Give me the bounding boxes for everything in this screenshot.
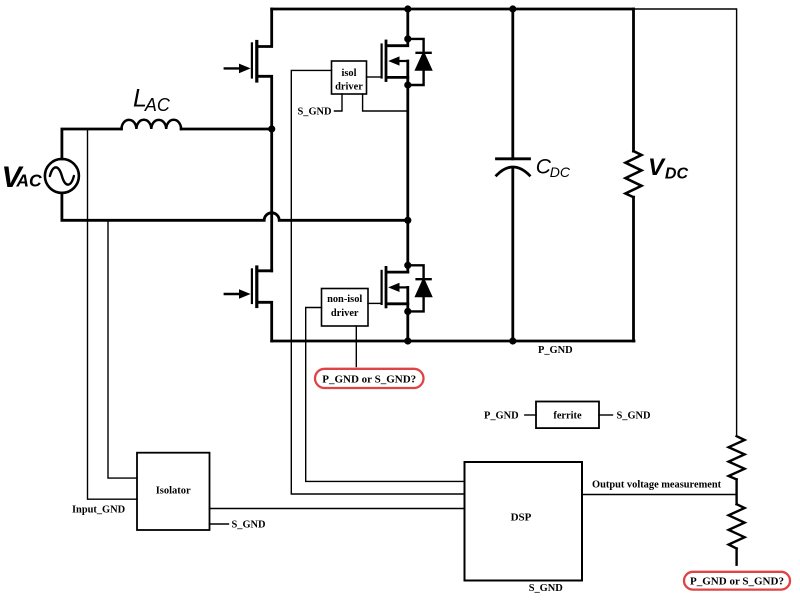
callout oval P_GND or S_GND? (divider)	[684, 572, 790, 590]
svg-text:P_GND or S_GND?: P_GND or S_GND?	[322, 373, 416, 385]
wire DSP output voltage measurement	[582, 494, 737, 496]
svg-text:P_GND: P_GND	[484, 410, 519, 421]
wire top DC rail	[272, 8, 634, 11]
node bottom rail right-leg junction dot	[404, 337, 411, 344]
node A junction dot	[268, 125, 275, 132]
node drain Q4 junction dot	[404, 262, 411, 269]
label P_GND or S_GND? (driver)	[322, 373, 416, 385]
node top rail CDC junction dot	[509, 5, 516, 12]
wire left leg midpoint (node A down to Q3 drain)	[270, 129, 273, 271]
svg-text:driver: driver	[335, 82, 363, 93]
label VAC	[2, 161, 43, 194]
gate arrow of Q3	[225, 289, 251, 299]
svg-text:ferrite: ferrite	[553, 410, 582, 421]
svg-text:DC: DC	[665, 166, 689, 183]
wire VAC top lead	[62, 129, 122, 159]
wire isolator output to DSP	[210, 508, 465, 510]
svg-text:P_GND: P_GND	[538, 345, 573, 356]
wire right leg node B to Q4 drain	[406, 220, 409, 272]
svg-text:Input_GND: Input_GND	[72, 504, 125, 515]
wire isol driver source-reference pin to Q2 source	[363, 94, 408, 111]
svg-text:S_GND: S_GND	[617, 410, 651, 421]
label DSP	[511, 512, 532, 524]
transistor Q2 (top-right MOSFET)	[382, 9, 408, 85]
wire divider midpoint	[735, 479, 737, 504]
wire bottom P_GND rail	[272, 340, 634, 343]
node B junction dot (AC return to right leg)	[404, 217, 411, 224]
label Input_GND	[72, 504, 125, 515]
wire divider bottom stub	[735, 549, 737, 565]
wire non-isol driver gate output to Q4	[368, 302, 381, 304]
wire Q4 source to bottom rail	[406, 311, 409, 341]
non-isol driver box U2	[322, 289, 369, 327]
svg-text:DC: DC	[550, 164, 571, 180]
source arrow of Q4	[388, 283, 408, 292]
label P_GND or S_GND? (divider)	[690, 576, 784, 588]
resistor R lower divider	[729, 504, 745, 548]
callout oval P_GND or S_GND? (driver)	[315, 369, 424, 388]
DSP box U4	[465, 462, 583, 581]
wire inductor to node A	[181, 128, 272, 131]
label CDC	[536, 155, 571, 180]
isolator box U3	[137, 453, 210, 530]
svg-text:V: V	[648, 154, 666, 181]
label VDC	[648, 154, 688, 183]
label P_GND ferrite left	[484, 410, 519, 421]
svg-text:S_GND: S_GND	[529, 583, 563, 594]
svg-text:AC: AC	[15, 171, 42, 191]
wire right leg Q2 source to node B	[406, 85, 409, 220]
transistor Q1 (top-left MOSFET)	[252, 9, 272, 129]
body diode D2	[408, 39, 431, 85]
svg-text:Output voltage measurement: Output voltage measurement	[592, 480, 722, 491]
svg-text:Isolator: Isolator	[156, 485, 191, 496]
gate arrow of Q1	[225, 64, 251, 74]
wire isol driver gate output to Q2	[367, 76, 381, 78]
node source Q4 junction dot	[404, 308, 411, 315]
ferrite box FB1	[536, 402, 599, 429]
label non-isol driver	[327, 294, 362, 319]
wire VDC branch bottom	[632, 197, 635, 341]
capacitor CDC top lead	[511, 9, 514, 159]
wire ferrite right stub	[599, 414, 613, 416]
resistor VDC load	[626, 151, 642, 197]
source arrow of Q2	[388, 56, 408, 65]
capacitor CDC bottom lead	[511, 168, 514, 341]
svg-text:isol: isol	[341, 68, 356, 79]
svg-text:P_GND or S_GND?: P_GND or S_GND?	[690, 576, 784, 588]
wire isol driver S_GND pin	[335, 94, 343, 111]
isol driver box U1	[332, 61, 367, 94]
label S_GND DSP	[529, 583, 563, 594]
resistor R upper divider	[729, 436, 745, 479]
inductor LAC	[122, 120, 182, 129]
svg-text:S_GND: S_GND	[298, 107, 332, 118]
transistor Q3 (bottom-left MOSFET)	[252, 267, 272, 341]
node bottom rail CDC junction dot	[509, 337, 516, 344]
node top rail right-leg junction dot	[404, 5, 411, 12]
label LAC	[133, 85, 171, 115]
wire isol driver left pin down to DSP	[291, 70, 464, 494]
wire ferrite left stub	[525, 414, 536, 416]
wire VDC branch top	[632, 9, 635, 151]
label isol driver	[335, 68, 363, 93]
transistor Q4 (bottom-right MOSFET)	[382, 267, 408, 311]
node source Q2 junction dot	[404, 81, 411, 88]
wire thin top rail extension to divider	[634, 9, 737, 436]
svg-text:driver: driver	[331, 308, 359, 319]
wire sense 1 from AC top to isolator	[88, 129, 138, 499]
body diode D4	[408, 265, 431, 311]
wire sense 2 from AC return to isolator	[108, 220, 137, 478]
svg-text:non-isol: non-isol	[327, 294, 362, 305]
svg-text:AC: AC	[144, 95, 171, 115]
label Output voltage measurement	[592, 480, 722, 491]
wire isolator S_GND stub	[210, 523, 229, 525]
label Isolator	[156, 485, 191, 496]
svg-text:DSP: DSP	[511, 512, 532, 524]
label ferrite	[553, 410, 582, 421]
label S_GND ferrite right	[617, 410, 651, 421]
svg-text:S_GND: S_GND	[232, 520, 266, 531]
wire VAC bottom lead with hop over left leg	[62, 193, 408, 220]
label P_GND bottom rail	[538, 345, 573, 356]
AC source VAC	[45, 159, 79, 193]
capacitor CDC	[497, 159, 530, 176]
wire non-isol driver left pin down to DSP	[306, 308, 465, 482]
label S_GND isol driver	[298, 107, 332, 118]
node drain Q2 junction dot	[404, 35, 411, 42]
wire non-isol driver ground pin stub	[355, 326, 357, 367]
label S_GND isolator	[232, 520, 266, 531]
